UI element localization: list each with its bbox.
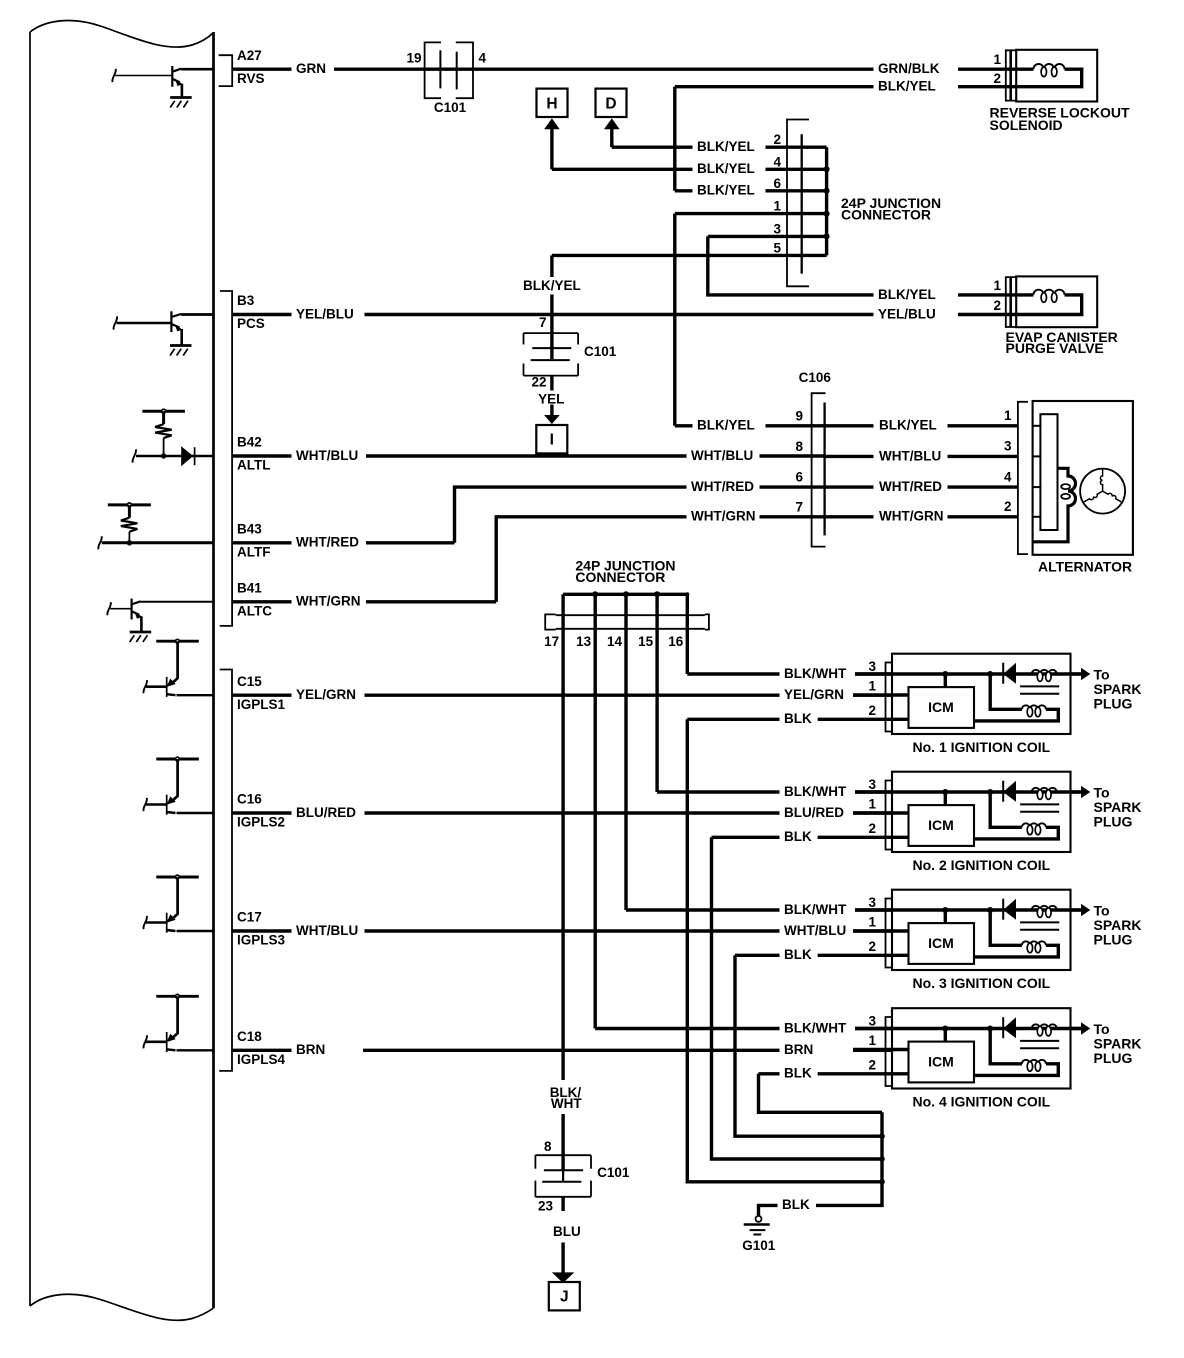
svg-text:BLK: BLK — [782, 1197, 810, 1212]
wire C15 collector to pin — [177, 694, 214, 696]
svg-text:C15: C15 — [237, 674, 262, 689]
svg-text:B41: B41 — [237, 580, 262, 595]
wire BRN C18 to ignition coil — [232, 1049, 292, 1052]
alternator box — [1033, 401, 1133, 555]
transistor collector — [132, 601, 141, 604]
svg-text:BLK/YEL: BLK/YEL — [879, 418, 937, 433]
svg-text:No. 3 IGNITION COIL: No. 3 IGNITION COIL — [913, 975, 1051, 991]
secondary winding — [1022, 823, 1046, 827]
svg-text:C16: C16 — [237, 792, 262, 807]
svg-text:C101: C101 — [584, 344, 617, 359]
diode D2 — [1003, 781, 1016, 802]
ground trunk to G101 — [816, 1112, 882, 1205]
svg-text:BLK: BLK — [784, 711, 812, 726]
svg-text:BLK/WHT: BLK/WHT — [784, 666, 847, 681]
transistor base lead — [110, 608, 131, 610]
secondary winding — [1022, 705, 1046, 709]
connector C101 pins 19/4 — [425, 67, 473, 70]
wire WHT/BLU C17 to ignition coil — [232, 929, 292, 932]
secondary wiring — [990, 910, 1022, 945]
wire BLK/WHT to No.2 coil pin 3 — [657, 790, 779, 793]
svg-text:3: 3 — [868, 1014, 876, 1029]
junction dot — [879, 1156, 885, 1162]
to spark plug arrow — [1071, 1027, 1082, 1030]
svg-text:ALTL: ALTL — [237, 458, 271, 473]
connector C101 pins 7/22 — [524, 332, 579, 334]
wire BLK from No.4 coil pin 2 — [759, 1072, 780, 1075]
wire BLK/YEL junction row5 to C101 pin 7 — [550, 255, 553, 277]
svg-text:WHT/BLU: WHT/BLU — [784, 923, 846, 938]
svg-text:23: 23 — [538, 1199, 554, 1214]
reverse lockout solenoid bracket — [1006, 50, 1016, 100]
svg-text:2: 2 — [1004, 499, 1012, 514]
ECM/PCM torn band left edge — [29, 32, 31, 1306]
svg-text:ICM: ICM — [928, 817, 954, 833]
wire BLK/YEL junction row1 to C106 pin 9 — [673, 214, 676, 426]
wire pin 17 vertical (to C101) — [561, 594, 564, 1080]
wire BLK/YEL junction row 2 — [612, 145, 693, 148]
pull-up circle — [176, 639, 180, 643]
svg-text:6: 6 — [795, 470, 803, 485]
diode D5 — [181, 446, 193, 466]
svg-text:IGPLS1: IGPLS1 — [237, 697, 286, 712]
svg-text:1: 1 — [993, 278, 1001, 293]
svg-text:C17: C17 — [237, 910, 262, 925]
svg-text:BLK/YEL: BLK/YEL — [697, 418, 755, 433]
svg-text:9: 9 — [795, 408, 803, 423]
svg-text:7: 7 — [539, 315, 547, 330]
junction dot — [987, 789, 993, 795]
ECM/PCM torn band right edge — [212, 32, 215, 1308]
svg-text:BLK/YEL: BLK/YEL — [878, 79, 936, 94]
svg-text:3: 3 — [868, 777, 876, 792]
svg-text:8: 8 — [544, 1139, 552, 1154]
svg-text:6: 6 — [773, 176, 781, 191]
ICM U2 — [909, 805, 975, 846]
svg-text:PCS: PCS — [237, 316, 265, 331]
svg-text:PLUG: PLUG — [1094, 696, 1133, 712]
wire BLK from No.2 coil pin 2 — [712, 836, 780, 839]
arrow into I box — [550, 405, 553, 416]
ICM top lead — [944, 910, 947, 923]
transistor collector — [167, 930, 176, 931]
svg-text:YEL/GRN: YEL/GRN — [296, 687, 356, 702]
wire BLK/YEL junction row 6 — [675, 189, 693, 192]
No. 2 ignition coil connector bracket — [886, 781, 893, 850]
connector reference box H — [537, 89, 568, 117]
pull-up rail — [156, 876, 199, 879]
24P junction connector bus — [825, 147, 828, 255]
svg-text:BLK/YEL: BLK/YEL — [523, 278, 581, 293]
junction dot — [942, 789, 948, 795]
wire BLK/YEL junction row 4 — [552, 168, 693, 171]
svg-text:17: 17 — [544, 634, 559, 649]
svg-text:WHT/BLU: WHT/BLU — [879, 448, 941, 463]
junction dot — [127, 540, 132, 545]
svg-text:GRN: GRN — [296, 61, 326, 76]
svg-text:CONNECTOR: CONNECTOR — [575, 569, 665, 585]
svg-text:No. 1 IGNITION COIL: No. 1 IGNITION COIL — [913, 739, 1051, 755]
No. 2 coil pin 2 wire (inside) — [817, 836, 909, 839]
wire BLK vertical No.4 — [759, 1074, 883, 1113]
svg-text:YEL: YEL — [538, 392, 564, 407]
svg-text:No. 2 IGNITION COIL: No. 2 IGNITION COIL — [913, 857, 1051, 873]
svg-text:1: 1 — [1004, 408, 1012, 423]
svg-text:CONNECTOR: CONNECTOR — [841, 207, 931, 223]
svg-text:3: 3 — [868, 895, 876, 910]
pull-up rail — [156, 640, 199, 643]
svg-text:WHT/GRN: WHT/GRN — [296, 594, 361, 609]
pull-up circle — [162, 409, 166, 413]
diode D4 — [1003, 1017, 1016, 1038]
to spark plug arrow — [1071, 908, 1082, 911]
to spark plug arrow — [1071, 672, 1082, 675]
ICM top lead — [944, 1029, 947, 1042]
svg-text:1: 1 — [868, 679, 876, 694]
svg-text:16: 16 — [668, 634, 684, 649]
ground symbol — [170, 344, 192, 347]
svg-text:BLK/YEL: BLK/YEL — [878, 287, 936, 302]
pull-up circle — [176, 875, 180, 879]
svg-text:G101: G101 — [742, 1238, 776, 1253]
svg-text:5: 5 — [773, 240, 781, 255]
secondary wiring — [990, 674, 1022, 709]
wire B41 collector to pin — [141, 601, 214, 603]
svg-text:BLU/RED: BLU/RED — [784, 805, 844, 820]
ICM top lead — [944, 674, 947, 687]
wire junction row 3 — [708, 235, 827, 238]
svg-text:1: 1 — [868, 915, 876, 930]
svg-text:ALTC: ALTC — [237, 603, 272, 618]
wire BLK/YEL junction row3 to EVAP pin 1 — [708, 236, 874, 295]
transformer core — [1020, 1040, 1059, 1042]
wire BLK vertical No.3 — [735, 955, 882, 1136]
resistor R1 — [162, 411, 165, 424]
junction dot — [879, 1179, 885, 1185]
No. 2 ignition coil box — [892, 772, 1071, 852]
primary winding — [1032, 1024, 1057, 1028]
svg-text:PLUG: PLUG — [1094, 814, 1133, 830]
wire BLK/WHT to No.1 coil pin 3 — [687, 672, 779, 675]
svg-text:1: 1 — [993, 52, 1001, 67]
svg-text:1: 1 — [868, 1033, 876, 1048]
svg-text:2: 2 — [993, 71, 1001, 86]
connector bracket B3-B41 group — [220, 291, 232, 626]
transistor emitter — [172, 79, 179, 83]
No. 1 coil pin 3 wire (inside) — [855, 672, 1081, 675]
connector bracket C15-C18 group — [219, 670, 232, 1071]
svg-text:B42: B42 — [237, 435, 262, 450]
svg-text:WHT/GRN: WHT/GRN — [691, 509, 756, 524]
transistor base bar — [166, 1032, 168, 1052]
alternator bracket — [1018, 402, 1028, 554]
No. 2 coil pin 3 wire (inside) — [855, 790, 1081, 793]
ICM U1 — [909, 687, 975, 728]
transformer core — [1020, 803, 1059, 805]
No. 3 coil pin 3 wire (inside) — [855, 908, 1081, 911]
wire junction row 5 — [552, 254, 827, 257]
svg-text:IGPLS4: IGPLS4 — [237, 1052, 286, 1067]
svg-text:13: 13 — [576, 634, 592, 649]
wire YEL/GRN C15 to ignition coil — [232, 694, 292, 697]
pull-up rail B43 — [108, 503, 151, 506]
svg-text:BRN: BRN — [296, 1042, 325, 1057]
svg-text:J: J — [560, 1289, 569, 1306]
svg-text:C101: C101 — [597, 1165, 630, 1180]
No. 3 ignition coil connector bracket — [886, 899, 893, 968]
ground symbol — [130, 631, 152, 634]
primary winding — [1032, 670, 1057, 674]
svg-text:WHT: WHT — [551, 1096, 582, 1111]
No. 4 coil pin 1 wire (inside) — [853, 1048, 909, 1051]
alternator connector strip — [1040, 414, 1057, 530]
transistor collector — [172, 69, 181, 72]
svg-text:D: D — [605, 95, 616, 112]
wire WHT/RED B43 to C106 pin 6 — [232, 541, 292, 544]
primary winding — [1032, 906, 1057, 910]
wire WHT/GRN B41 to C106 pin 7 — [232, 600, 292, 603]
wire B42 internal — [136, 455, 214, 458]
wire YEL/BLU B3 to EVAP purge valve pin 2 — [232, 313, 292, 316]
svg-text:3: 3 — [1004, 439, 1012, 454]
No. 1 ignition coil box — [892, 654, 1071, 734]
wire A27 collector to pin — [181, 68, 213, 71]
wire BLK from No.1 coil pin 2 — [687, 718, 779, 721]
svg-text:ICM: ICM — [928, 1054, 954, 1070]
transistor emitter lead — [172, 996, 178, 1038]
svg-text:RVS: RVS — [237, 71, 265, 86]
svg-text:YEL/BLU: YEL/BLU — [878, 306, 936, 321]
No. 3 coil pin 1 wire (inside) — [853, 929, 909, 932]
connector reference box D — [596, 89, 627, 117]
junction dots — [592, 591, 598, 597]
svg-text:YEL/GRN: YEL/GRN — [784, 687, 844, 702]
junction bus — [563, 593, 687, 596]
svg-text:15: 15 — [638, 634, 654, 649]
wire pin 13 vertical — [594, 594, 597, 1028]
svg-text:I: I — [550, 432, 554, 449]
svg-text:14: 14 — [607, 634, 623, 649]
junction dots — [824, 166, 830, 172]
arrow into J box — [561, 1243, 564, 1274]
svg-text:YEL/BLU: YEL/BLU — [296, 306, 354, 321]
No. 2 coil pin 1 wire (inside) — [853, 811, 909, 814]
wire C17 collector to pin — [177, 930, 214, 932]
connector C106 strip — [823, 403, 825, 536]
junction dot — [942, 671, 948, 677]
wire BLK/YEL solenoid pin 2 branch vertical — [673, 87, 676, 191]
transistor emitter lead — [172, 641, 178, 683]
transistor emitter lead — [172, 877, 178, 919]
primary winding — [1032, 788, 1057, 792]
svg-text:SOLENOID: SOLENOID — [990, 117, 1063, 133]
alternator pin stubs — [1033, 425, 1042, 427]
pull-up circle — [176, 994, 180, 998]
svg-text:GRN/BLK: GRN/BLK — [878, 61, 940, 76]
wire junction row 1 — [675, 212, 827, 215]
svg-text:1: 1 — [868, 797, 876, 812]
pull-up rail B42 — [142, 410, 185, 413]
ICM top lead — [944, 792, 947, 805]
svg-text:BLK/YEL: BLK/YEL — [697, 161, 755, 176]
wire pin 14 vertical — [624, 594, 627, 910]
stator Y windings — [1100, 470, 1102, 492]
transistor collector — [167, 1049, 176, 1050]
EVAP solenoid coil L2 — [1016, 293, 1033, 296]
svg-text:BLU: BLU — [553, 1224, 581, 1239]
svg-text:BLU/RED: BLU/RED — [296, 805, 356, 820]
svg-text:BLK/YEL: BLK/YEL — [697, 183, 755, 198]
svg-text:2: 2 — [868, 703, 876, 718]
wire GRN A27 to C101 — [232, 67, 292, 70]
wire BLK from No.3 coil pin 2 — [735, 954, 780, 957]
transistor base lead — [115, 75, 172, 77]
transformer core — [1020, 921, 1059, 923]
svg-text:PLUG: PLUG — [1094, 1050, 1133, 1066]
transistor base lead — [146, 803, 167, 806]
svg-text:ICM: ICM — [928, 699, 954, 715]
arrow into H — [544, 118, 560, 129]
svg-text:BRN: BRN — [784, 1042, 813, 1057]
svg-text:19: 19 — [406, 51, 421, 66]
svg-text:WHT/BLU: WHT/BLU — [296, 448, 358, 463]
junction dot — [987, 1026, 993, 1032]
svg-text:BLK/YEL: BLK/YEL — [697, 139, 755, 154]
wire BLK/YEL to reverse lockout solenoid pin 2 — [675, 85, 874, 88]
svg-text:WHT/RED: WHT/RED — [691, 479, 754, 494]
svg-text:4: 4 — [773, 154, 781, 169]
svg-text:PLUG: PLUG — [1094, 932, 1133, 948]
transistor base bar — [170, 311, 172, 332]
transistor base bar — [171, 66, 173, 87]
secondary winding — [1022, 1060, 1046, 1064]
svg-text:BLK/WHT: BLK/WHT — [784, 1020, 847, 1035]
junction dot — [942, 907, 948, 913]
24P junction connector (top) bracket — [787, 120, 809, 287]
pull-up rail — [156, 758, 199, 761]
svg-text:H: H — [546, 95, 557, 112]
transistor emitter lead — [172, 759, 178, 801]
svg-text:No. 4 IGNITION COIL: No. 4 IGNITION COIL — [913, 1094, 1051, 1110]
svg-text:BLK/WHT: BLK/WHT — [784, 902, 847, 917]
No. 4 coil pin 2 wire (inside) — [817, 1072, 909, 1075]
wire B43 internal — [102, 541, 214, 544]
svg-text:8: 8 — [795, 439, 803, 454]
wire GRN/BLK to reverse lockout solenoid pin 1 — [473, 67, 874, 70]
svg-text:BLK: BLK — [784, 947, 812, 962]
wire WHT/RED C106 pin 6 to alternator pin 4 — [825, 485, 874, 488]
alternator field coil — [1033, 468, 1076, 542]
pull-up circle — [176, 757, 180, 761]
resistor R2 — [128, 505, 131, 518]
svg-text:7: 7 — [795, 499, 803, 514]
transistor base lead — [146, 921, 167, 924]
transistor base lead — [117, 322, 172, 325]
EVAP canister purge valve box — [1016, 276, 1097, 327]
svg-text:2: 2 — [993, 298, 1001, 313]
svg-text:3: 3 — [773, 221, 781, 236]
wire C18 collector to pin — [177, 1049, 214, 1051]
pull-up rail — [156, 995, 199, 998]
svg-text:C106: C106 — [799, 370, 832, 385]
svg-text:B3: B3 — [237, 293, 255, 308]
wire pin 16 vertical — [686, 594, 689, 674]
svg-text:2: 2 — [868, 1057, 876, 1072]
wire BLK/WHT to No.4 coil pin 3 — [595, 1027, 779, 1030]
transistor emitter — [132, 611, 140, 615]
diode D1 — [1003, 663, 1016, 684]
No. 3 ignition coil box — [892, 890, 1071, 970]
wire BLK/WHT to No.3 coil pin 3 — [626, 908, 780, 911]
transformer core — [1020, 685, 1059, 687]
transistor base bar — [166, 795, 168, 815]
diode D3 — [1003, 899, 1016, 920]
svg-text:WHT/RED: WHT/RED — [879, 479, 942, 494]
svg-text:C101: C101 — [434, 100, 467, 115]
svg-text:BLK/WHT: BLK/WHT — [784, 784, 847, 799]
transistor base lead — [146, 685, 167, 688]
wire BLU/RED C16 to ignition coil — [232, 811, 292, 814]
solenoid coil L1 — [1016, 67, 1033, 70]
transistor base bar — [166, 913, 168, 933]
wire BLK vertical No.1 — [687, 719, 882, 1182]
ICM U4 — [909, 1042, 975, 1083]
connector reference box I — [536, 425, 567, 453]
junction dot — [161, 453, 166, 458]
alternator stator (3-phase) circle — [1080, 469, 1125, 514]
svg-text:3: 3 — [868, 659, 876, 674]
junction dot — [942, 1026, 948, 1032]
svg-text:IGPLS2: IGPLS2 — [237, 815, 285, 830]
ground symbol — [170, 96, 192, 99]
wire WHT/GRN C106 pin 7 to alternator pin 2 — [825, 515, 874, 518]
junction dot — [987, 907, 993, 913]
transistor base bar — [131, 599, 133, 620]
svg-text:WHT/GRN: WHT/GRN — [879, 509, 944, 524]
svg-text:IGPLS3: IGPLS3 — [237, 933, 286, 948]
ECM/PCM torn band top wavy edge — [30, 21, 214, 48]
No. 1 ignition coil connector bracket — [886, 663, 893, 732]
junction dot — [879, 1133, 885, 1139]
connector C106 bracket — [812, 393, 826, 546]
wire BLK vertical No.2 — [712, 837, 883, 1159]
wire WHT/BLU B42 to C106 pin 8 — [232, 454, 292, 457]
No. 4 ignition coil connector bracket — [886, 1017, 893, 1086]
svg-text:ALTF: ALTF — [237, 544, 271, 559]
svg-text:A27: A27 — [237, 48, 262, 63]
pull-up circle — [127, 503, 131, 507]
No. 4 coil pin 3 wire (inside) — [855, 1027, 1081, 1030]
ECM/PCM torn band bottom wavy edge — [30, 1294, 214, 1320]
No. 1 coil pin 1 wire (inside) — [853, 693, 909, 696]
No. 1 coil pin 2 wire (inside) — [817, 718, 909, 721]
svg-text:4: 4 — [479, 51, 487, 66]
transistor collector — [167, 812, 176, 813]
transistor base bar — [166, 677, 168, 697]
ICM U3 — [909, 923, 975, 964]
arrow into D — [604, 118, 620, 129]
transistor base lead — [146, 1041, 167, 1044]
connector reference box J — [549, 1282, 580, 1310]
No. 4 ignition coil box — [892, 1008, 1071, 1088]
connector C101 pins 8/23 — [535, 1154, 591, 1156]
svg-text:BLK: BLK — [784, 829, 812, 844]
to spark plug arrow — [1071, 790, 1082, 793]
transistor emitter — [171, 324, 179, 328]
svg-text:2: 2 — [868, 821, 876, 836]
svg-text:ALTERNATOR: ALTERNATOR — [1038, 559, 1132, 575]
svg-text:C18: C18 — [237, 1029, 262, 1044]
